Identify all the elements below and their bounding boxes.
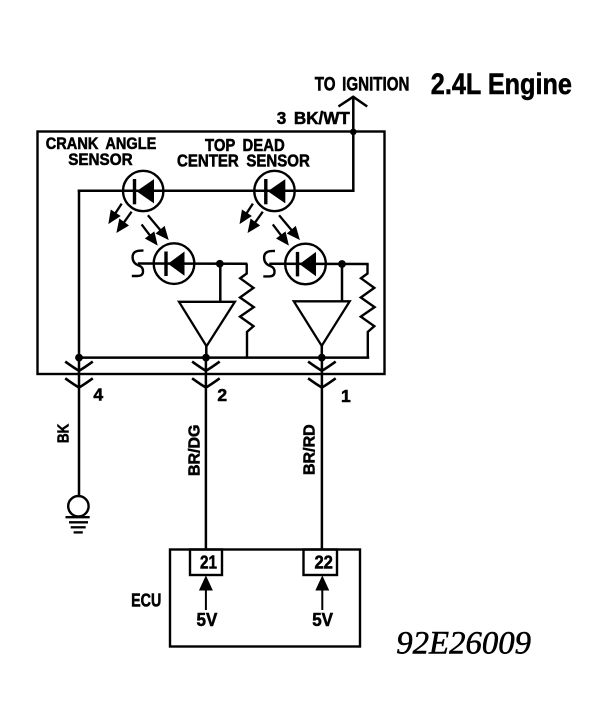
svg-text:TO IGNITION: TO IGNITION: [315, 75, 410, 96]
svg-text:3 BK/WT: 3 BK/WT: [277, 108, 350, 128]
svg-text:1: 1: [341, 386, 351, 406]
svg-text:BK: BK: [56, 423, 73, 443]
svg-text:CENTER SENSOR: CENTER SENSOR: [177, 150, 310, 170]
svg-text:92E26009: 92E26009: [396, 626, 531, 662]
svg-text:5V: 5V: [197, 610, 218, 630]
svg-text:22: 22: [314, 553, 333, 573]
svg-text:4: 4: [93, 385, 103, 405]
svg-text:ECU: ECU: [131, 591, 161, 611]
svg-text:BR/RD: BR/RD: [302, 424, 319, 475]
svg-text:5V: 5V: [312, 610, 333, 630]
svg-text:SENSOR: SENSOR: [68, 151, 132, 169]
svg-text:2: 2: [217, 385, 227, 405]
svg-text:2.4L Engine: 2.4L Engine: [431, 68, 572, 101]
svg-text:21: 21: [200, 553, 217, 573]
svg-text:BR/DG: BR/DG: [187, 425, 204, 477]
